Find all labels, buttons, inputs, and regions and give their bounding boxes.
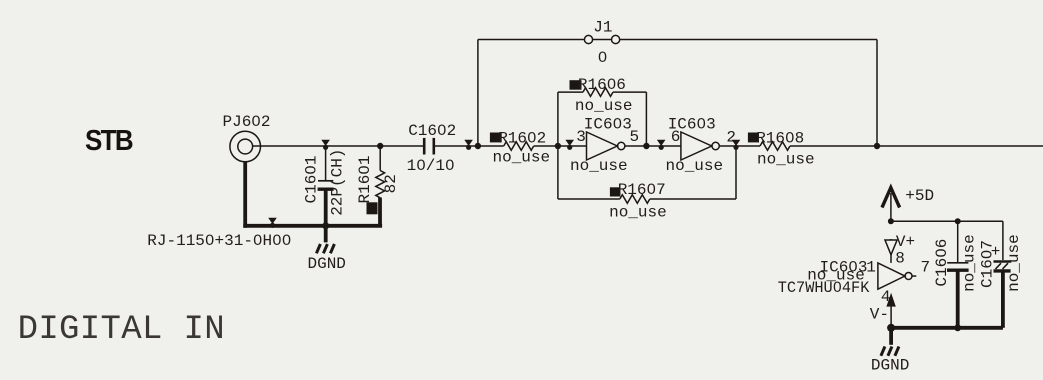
svg-text:DIGITAL IN: DIGITAL IN bbox=[18, 311, 225, 349]
square marker R1601 bbox=[367, 202, 378, 214]
capacitor C1601 lead bbox=[325, 146, 327, 180]
svg-text:no_use: no_use bbox=[666, 157, 724, 175]
svg-text:C1601: C1601 bbox=[303, 155, 321, 203]
pin marker gate2 input pin6 bbox=[657, 140, 666, 150]
ground DGND right bbox=[881, 347, 899, 356]
svg-text:5: 5 bbox=[630, 128, 640, 146]
svg-text:R1607: R1607 bbox=[618, 181, 666, 199]
resistor R1607 bbox=[620, 195, 650, 204]
node junction after gate1 bbox=[643, 143, 649, 149]
wire ground bus thick bbox=[243, 224, 382, 228]
svg-text:1: 1 bbox=[866, 259, 876, 277]
power symbol V- arrow bbox=[886, 293, 895, 307]
svg-text:no_use: no_use bbox=[575, 97, 633, 115]
jumper J1 pins bbox=[584, 35, 592, 43]
svg-text:DGND: DGND bbox=[871, 357, 909, 375]
svg-text:6: 6 bbox=[671, 128, 681, 146]
wire +5D down bbox=[890, 193, 892, 221]
node junction after R1602 bbox=[555, 143, 561, 149]
square marker R1607 bbox=[610, 187, 621, 196]
wire R1601 bottom thick bbox=[378, 198, 382, 226]
svg-text:R1608: R1608 bbox=[756, 129, 804, 147]
capacitor C1607 polarized bbox=[994, 260, 1012, 263]
svg-text:no_use: no_use bbox=[961, 234, 979, 292]
node diamond junction C1601/bus bbox=[320, 221, 331, 230]
node junction C1606 top bbox=[955, 218, 961, 224]
svg-text:no_use: no_use bbox=[757, 150, 815, 168]
wire ground bus right thick bbox=[891, 326, 1003, 330]
svg-text:PJ602: PJ602 bbox=[223, 113, 271, 131]
resistor R1601 bbox=[376, 171, 385, 198]
svg-text:V-: V- bbox=[870, 306, 889, 324]
label STB bbox=[85, 124, 133, 156]
capacitor C1602 bbox=[423, 138, 426, 155]
svg-text:+5D: +5D bbox=[905, 187, 934, 205]
node junction J1 right bbox=[874, 143, 880, 149]
svg-text:STB: STB bbox=[85, 124, 133, 156]
connector PJ602 bbox=[230, 131, 261, 162]
svg-text:no_use: no_use bbox=[493, 148, 551, 166]
wire gate1 out to gate2 bbox=[625, 145, 681, 147]
node junction +5D bbox=[888, 218, 894, 224]
wire pin7 stub bbox=[912, 275, 916, 277]
resistor R1602 bbox=[504, 142, 534, 151]
resistor R1606 bbox=[583, 88, 613, 97]
power +5D arrow bbox=[882, 188, 900, 208]
wire R1602 to gate1 bbox=[534, 145, 587, 147]
svg-text:no_use: no_use bbox=[609, 203, 667, 221]
wire C1601 to ground thick bbox=[324, 190, 328, 242]
svg-text:C1607: C1607 bbox=[979, 240, 997, 288]
pin marker on bus bbox=[268, 218, 277, 228]
svg-text:IC603: IC603 bbox=[584, 116, 632, 134]
square marker R1602 bbox=[490, 133, 502, 143]
capacitor C1606 bbox=[947, 262, 968, 264]
feedback loop R1606 wires bbox=[558, 91, 583, 93]
ground DGND left bbox=[316, 244, 334, 253]
wire gate2 out to R1608 bbox=[719, 145, 760, 147]
svg-text:7: 7 bbox=[921, 259, 931, 277]
node junction R1601 top bbox=[377, 143, 383, 149]
svg-text:82: 82 bbox=[382, 174, 400, 193]
capacitor C1601 bbox=[318, 180, 333, 182]
svg-text:J1: J1 bbox=[593, 19, 612, 37]
svg-text:3: 3 bbox=[576, 128, 586, 146]
wire C1607 bottom thick bbox=[1001, 271, 1005, 328]
wire C1606 bottom thick bbox=[956, 271, 960, 328]
svg-text:C1602: C1602 bbox=[408, 122, 456, 140]
power symbol V+ bbox=[890, 239, 892, 240]
wire main line from PJ602 to C1602 bbox=[253, 145, 423, 147]
pin marker gate2 output pin2 bbox=[732, 140, 741, 150]
svg-text:no_use: no_use bbox=[1005, 234, 1023, 292]
svg-text:10/10: 10/10 bbox=[407, 157, 455, 175]
wire C1607 top lead bbox=[1002, 221, 1004, 260]
svg-text:TC7WHU04FK: TC7WHU04FK bbox=[778, 279, 870, 297]
svg-text:no_use: no_use bbox=[570, 157, 628, 175]
svg-text:R1606: R1606 bbox=[578, 76, 626, 94]
node junction C1606 bottom bbox=[954, 324, 961, 331]
pin marker before J1 tap bbox=[464, 140, 473, 150]
node junction ground right bbox=[887, 324, 895, 332]
resistor R1608 bbox=[760, 142, 790, 151]
op-amp inverter IC603 gate2 bbox=[681, 132, 712, 160]
wire J1 left vertical bbox=[477, 40, 479, 147]
feedback loop R1607 wires bbox=[557, 146, 559, 199]
wire to DGND right thick bbox=[889, 328, 893, 345]
square marker R1606 bbox=[570, 80, 582, 90]
svg-text:R1601: R1601 bbox=[356, 155, 374, 203]
jumper J1 wires bbox=[478, 39, 585, 41]
node junction J1 left bbox=[475, 143, 481, 149]
svg-text:RJ-1150+31-0H00: RJ-1150+31-0H00 bbox=[147, 232, 291, 250]
svg-text:22P(CH): 22P(CH) bbox=[328, 149, 346, 216]
zero dot masks bbox=[208, 55, 989, 289]
pin marker C1601 top bbox=[321, 140, 330, 150]
svg-text:C1606: C1606 bbox=[933, 239, 951, 287]
wire J1 right vertical bbox=[876, 40, 878, 147]
wire PJ602 down thick bbox=[243, 162, 247, 228]
pin marker gate1 input pin3 bbox=[565, 140, 574, 150]
wire C1602 to R1602 bbox=[435, 145, 504, 147]
svg-text:8: 8 bbox=[895, 249, 905, 267]
square marker R1608 bbox=[748, 133, 759, 143]
wire top rail to C1607 bbox=[891, 220, 1003, 222]
op-amp inverter IC603 gate3 bbox=[878, 263, 905, 289]
wire C1606 top lead bbox=[957, 221, 959, 262]
svg-text:DGND: DGND bbox=[308, 255, 346, 273]
resistor R1601 lead bbox=[379, 146, 381, 171]
wire R1608 to right edge bbox=[790, 145, 1043, 147]
op-amp inverter IC603 gate1 bbox=[587, 132, 618, 160]
svg-text:R1602: R1602 bbox=[498, 130, 546, 148]
